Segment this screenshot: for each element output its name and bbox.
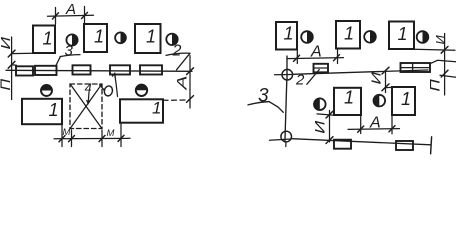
- label loop glyph with leader arrow to busbar: [100, 73, 118, 96]
- bottom dimension A line: [348, 128, 400, 131]
- switch symbol C3 right-half filled: [166, 34, 177, 45]
- switch symbol F1 left-half filled: [314, 98, 326, 110]
- left dim reference line upper: [12, 52, 33, 54]
- right edge dim tick lower: [441, 70, 448, 77]
- middle dim tick lower: [382, 84, 389, 91]
- dimension A line: [48, 14, 94, 17]
- tail below bottom junction: [285, 142, 287, 147]
- svg-text:И: И: [0, 36, 13, 50]
- right edge dim tick upper: [441, 46, 448, 53]
- svg-text:А: А: [310, 44, 322, 61]
- shaft diagonal 2: [71, 85, 102, 129]
- svg-text:И: И: [312, 120, 328, 133]
- bottom dimension A extension left: [360, 115, 362, 133]
- luminaire square T1: [276, 22, 297, 50]
- left stub at top junction: [275, 74, 293, 76]
- bottom-left dim reference line: [317, 114, 336, 116]
- M tick 4: [118, 135, 124, 141]
- left stub at bottom junction: [270, 139, 292, 140]
- bottom busbar section Rd: [396, 141, 413, 150]
- switch symbol E1 right-half filled: [301, 31, 313, 43]
- svg-text:М: М: [63, 127, 71, 138]
- equipment rectangle R2: [120, 99, 163, 122]
- junction box top: [282, 69, 293, 80]
- left dim tick upper: [8, 50, 15, 57]
- switch symbol E2 right-half filled: [364, 31, 376, 43]
- busbar section Ra: [314, 64, 329, 73]
- bottom-left dim tick upper: [326, 111, 333, 118]
- bottom dimension A tick left: [358, 126, 364, 132]
- right edge dimension vertical line: [444, 34, 446, 96]
- wall line left vertical: [285, 80, 287, 142]
- svg-text:1: 1: [152, 99, 161, 118]
- top dimension A extension left: [296, 50, 298, 64]
- svg-text:1: 1: [398, 24, 408, 44]
- M dim extension from R2: [120, 124, 122, 147]
- bottom wall end cap: [431, 137, 432, 154]
- middle dim tick upper: [382, 67, 389, 74]
- right edge reference line: [414, 48, 455, 51]
- lamp symbol D2 top-half filled: [136, 85, 147, 96]
- M tick 1: [59, 136, 65, 142]
- rail right lower stub: [440, 75, 456, 77]
- top rail line of right diagram: [293, 70, 429, 74]
- bottom-left dimension I vertical line: [329, 111, 331, 143]
- svg-text:1: 1: [284, 24, 294, 44]
- lamp symbol D1 top-half filled: [41, 85, 52, 96]
- svg-text:3: 3: [258, 86, 269, 107]
- ventilation shaft dashed box: [70, 84, 102, 129]
- busbar section D: [110, 65, 130, 74]
- M dim extension from shaft left: [71, 130, 73, 147]
- label 2 with leader: [166, 43, 190, 70]
- wall line above junction: [286, 56, 288, 80]
- busbar Rb divider: [412, 63, 414, 72]
- shaft diagonal 1: [71, 85, 102, 129]
- busbar rail line: [6, 70, 192, 71]
- bottom-left dim tick lower: [326, 137, 333, 144]
- left dim tick lower: [8, 61, 15, 68]
- luminaire square S1: [33, 26, 55, 54]
- dimension A extension line right: [84, 7, 86, 24]
- top dimension A extension right: [337, 49, 339, 64]
- bottom dimension A tick right: [389, 126, 395, 132]
- right dim tick upper: [187, 68, 194, 75]
- svg-text:4: 4: [85, 80, 92, 95]
- top dimension A line: [287, 58, 344, 59]
- svg-text:1: 1: [146, 27, 156, 47]
- svg-text:А: А: [65, 1, 76, 18]
- top dimension A tick left: [294, 55, 300, 61]
- svg-text:1: 1: [43, 29, 53, 49]
- left dim reference line lower: [12, 64, 17, 67]
- svg-text:И: И: [370, 71, 384, 85]
- svg-text:И: И: [433, 35, 448, 45]
- M dim extension from shaft right: [101, 130, 103, 147]
- middle dim reference stub: [386, 86, 393, 88]
- svg-text:1: 1: [49, 100, 59, 120]
- svg-text:1: 1: [401, 89, 411, 109]
- busbar section A: [16, 66, 33, 75]
- luminaire square B1: [334, 88, 361, 115]
- svg-text:П: П: [0, 79, 14, 91]
- svg-text:А: А: [369, 115, 381, 132]
- busbar Rb midline: [401, 67, 431, 69]
- equipment rectangle R1: [22, 99, 62, 124]
- M dimension line: [54, 137, 130, 140]
- svg-text:М: М: [107, 128, 115, 139]
- label 2 with leader (right diagram): [295, 70, 319, 89]
- bottom wall line: [292, 139, 431, 145]
- bottom dimension A extension right: [391, 115, 393, 134]
- dimension A tick left: [53, 13, 59, 19]
- luminaire square S3: [135, 24, 161, 53]
- svg-text:П: П: [428, 78, 443, 91]
- M tick 2: [69, 136, 75, 142]
- busbar section C: [73, 65, 91, 74]
- M tick 3: [99, 135, 105, 141]
- rail jump diagonal: [430, 60, 456, 64]
- switch symbol C2 right-half filled: [115, 32, 126, 43]
- luminaire square T3: [389, 22, 414, 50]
- middle dimension I vertical line: [385, 70, 387, 92]
- busbar section Rb: [401, 63, 431, 72]
- busbar Ra midline: [314, 67, 329, 69]
- svg-text:3: 3: [65, 43, 74, 60]
- M dim extension from R1: [61, 126, 63, 147]
- label 4 with leader arrow: [85, 80, 92, 103]
- svg-text:1: 1: [344, 88, 354, 108]
- right dim dashed reference line: [163, 99, 190, 101]
- luminaire square S2: [84, 24, 107, 52]
- dimension A tick right: [82, 12, 88, 18]
- svg-text:2: 2: [172, 43, 182, 60]
- luminaire square T2: [336, 21, 360, 49]
- right dim tick lower: [187, 96, 194, 103]
- switch symbol E3 right-half filled: [417, 31, 429, 43]
- busbar section E: [140, 65, 162, 74]
- top dimension A tick right: [334, 55, 340, 61]
- switch symbol F2 left-half filled: [374, 95, 386, 107]
- svg-text:1: 1: [94, 27, 104, 47]
- svg-text:1: 1: [344, 24, 354, 44]
- label 3 with leader: [56, 43, 80, 66]
- dimension A extension line left: [55, 8, 57, 25]
- svg-text:А: А: [174, 75, 190, 90]
- label 3 with leader (right diagram): [248, 86, 283, 113]
- junction box bottom: [281, 131, 292, 142]
- right vertical dimension line of left diagram: [189, 56, 191, 109]
- switch symbol C1 right-half filled: [66, 34, 77, 45]
- luminaire square B2: [392, 87, 415, 115]
- bottom busbar section Rc: [334, 140, 351, 149]
- busbar section B: [35, 66, 57, 75]
- left vertical dimension line: [11, 37, 13, 100]
